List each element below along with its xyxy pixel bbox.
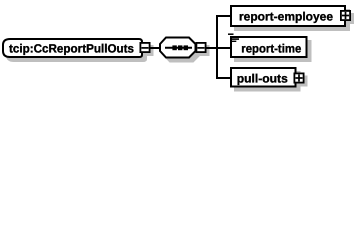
shadow of pull-outs box bbox=[235, 72, 300, 91]
svg-text:report-employee: report-employee bbox=[239, 9, 333, 23]
shadow of plus button report-employee bbox=[344, 14, 353, 23]
branch wire to report-employee bbox=[216, 15, 232, 17]
simple content icon on report-time bbox=[228, 33, 234, 35]
shadow of report-employee box bbox=[235, 10, 349, 30]
minus button U1 on main box bbox=[140, 43, 149, 52]
sequence icon dot 3 bbox=[184, 45, 188, 50]
sequence compositor octagon bbox=[160, 38, 196, 58]
wire main to sequence bbox=[149, 47, 162, 49]
sequence icon dot 2 bbox=[178, 45, 182, 50]
element box report-employee bbox=[231, 6, 345, 26]
element box tcip:CcReportPullOuts bbox=[3, 39, 142, 57]
plus button pull-outs bbox=[294, 73, 303, 82]
plus button report-employee bbox=[341, 11, 350, 20]
svg-text:pull-outs: pull-outs bbox=[237, 71, 288, 85]
element box report-time bbox=[231, 37, 307, 57]
shadow of minus button U1 bbox=[144, 46, 153, 55]
sequence icon dot 1 bbox=[172, 45, 176, 50]
branch wire to report-time bbox=[216, 47, 232, 49]
minus button U2 after sequence bbox=[196, 43, 205, 52]
shadow of minus button U2 bbox=[200, 46, 209, 55]
shadow of plus button pull-outs bbox=[298, 77, 307, 86]
shadow of report-time box bbox=[235, 41, 311, 61]
shadow of element tcip:CcReportPullOuts bbox=[7, 43, 146, 61]
svg-text:report-time: report-time bbox=[241, 41, 301, 55]
trunk vertical wire bbox=[216, 15, 218, 79]
element box pull-outs bbox=[231, 68, 296, 87]
branch wire to pull-outs bbox=[216, 77, 232, 79]
svg-text:tcip:CcReportPullOuts: tcip:CcReportPullOuts bbox=[9, 41, 134, 55]
shadow of sequence compositor bbox=[164, 42, 200, 62]
sequence icon line bbox=[165, 47, 192, 49]
wire sequence to trunk bbox=[205, 47, 218, 49]
